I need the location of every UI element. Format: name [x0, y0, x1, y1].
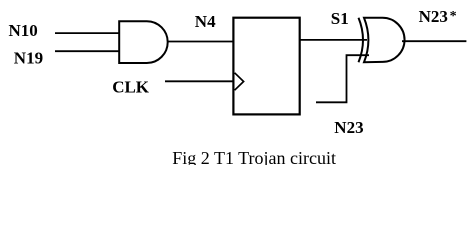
wire N19 to AND input	[55, 50, 120, 52]
svg-text:N23: N23	[419, 7, 448, 26]
svg-text:CLK: CLK	[112, 77, 150, 96]
svg-text:S1: S1	[331, 9, 349, 28]
wire CLK to flip-flop clock input	[165, 80, 234, 82]
wire S1 : flip-flop Q output to XOR input	[300, 39, 367, 41]
flip-flop U2 (D flip-flop box)	[233, 18, 299, 115]
XOR gate U3 body	[364, 18, 405, 62]
wire N23* : XOR output	[402, 40, 466, 42]
wire N10 to AND input	[55, 32, 120, 34]
svg-text:N4: N4	[195, 12, 216, 31]
svg-text:N23: N23	[334, 118, 363, 137]
wire N4 : AND output to flip-flop D input	[168, 41, 234, 43]
svg-text:N19: N19	[14, 49, 43, 68]
wire N23 feedback (L-shape) to XOR lower input	[316, 55, 369, 102]
XOR gate U3 input arc	[359, 18, 364, 62]
svg-text:N10: N10	[9, 21, 38, 40]
svg-text:Fig 2 T1 Trojan circuit: Fig 2 T1 Trojan circuit	[172, 148, 336, 165]
svg-text:*: *	[450, 9, 457, 24]
flip-flop clock triangle	[235, 73, 244, 90]
AND gate U1	[119, 21, 168, 63]
